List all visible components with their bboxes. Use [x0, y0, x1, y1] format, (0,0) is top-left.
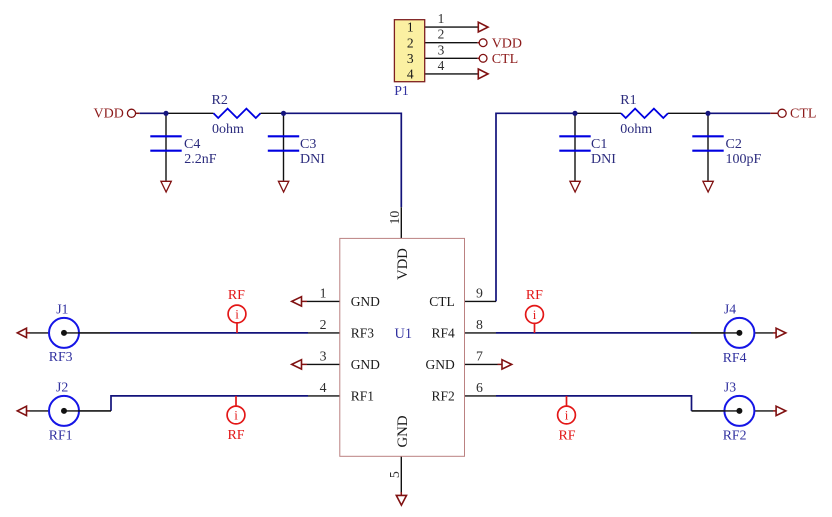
svg-text:CTL: CTL: [492, 52, 518, 67]
svg-text:2: 2: [438, 27, 445, 42]
svg-text:J1: J1: [56, 302, 68, 317]
svg-text:J3: J3: [724, 380, 736, 395]
svg-text:RF3: RF3: [351, 326, 375, 341]
svg-text:C4: C4: [184, 137, 200, 152]
svg-text:4: 4: [407, 67, 414, 82]
svg-text:C1: C1: [591, 137, 607, 152]
svg-text:VDD: VDD: [492, 36, 522, 51]
svg-text:i: i: [234, 408, 238, 423]
svg-text:4: 4: [438, 58, 445, 73]
svg-text:C2: C2: [726, 137, 742, 152]
svg-text:GND: GND: [351, 294, 380, 309]
svg-text:0ohm: 0ohm: [620, 122, 652, 137]
svg-text:VDD: VDD: [395, 248, 411, 280]
svg-text:GND: GND: [351, 357, 380, 372]
svg-text:100pF: 100pF: [726, 152, 762, 167]
svg-text:2.2nF: 2.2nF: [184, 152, 217, 167]
svg-text:1: 1: [407, 20, 414, 35]
svg-text:RF2: RF2: [723, 427, 747, 442]
svg-text:GND: GND: [395, 415, 411, 447]
svg-text:C3: C3: [300, 137, 316, 152]
svg-text:3: 3: [438, 42, 445, 57]
svg-text:RF: RF: [227, 428, 244, 443]
svg-text:R1: R1: [620, 93, 636, 108]
svg-text:RF3: RF3: [49, 349, 73, 364]
svg-text:U1: U1: [395, 326, 412, 342]
svg-text:1: 1: [320, 286, 327, 301]
svg-text:J4: J4: [724, 302, 736, 317]
svg-text:RF4: RF4: [723, 350, 747, 365]
svg-text:4: 4: [320, 380, 327, 395]
svg-text:P1: P1: [394, 83, 409, 98]
svg-text:DNI: DNI: [591, 152, 616, 167]
svg-text:10: 10: [387, 211, 402, 225]
svg-text:i: i: [565, 408, 569, 423]
svg-text:RF2: RF2: [432, 389, 455, 404]
svg-text:RF4: RF4: [432, 326, 456, 341]
svg-text:8: 8: [476, 317, 483, 332]
svg-text:VDD: VDD: [94, 107, 124, 122]
svg-text:R2: R2: [212, 93, 228, 108]
svg-text:GND: GND: [426, 357, 455, 372]
svg-text:9: 9: [476, 286, 483, 301]
svg-text:3: 3: [407, 51, 414, 66]
svg-text:RF: RF: [526, 288, 543, 303]
svg-text:RF1: RF1: [49, 427, 73, 442]
svg-text:RF: RF: [228, 288, 245, 303]
svg-text:i: i: [235, 307, 239, 322]
svg-text:2: 2: [407, 35, 414, 50]
svg-text:6: 6: [476, 380, 483, 395]
svg-text:3: 3: [320, 349, 327, 364]
svg-text:DNI: DNI: [300, 152, 325, 167]
svg-text:0ohm: 0ohm: [212, 122, 244, 137]
svg-text:i: i: [533, 307, 537, 322]
svg-text:7: 7: [476, 349, 483, 364]
svg-text:1: 1: [438, 11, 445, 26]
svg-text:RF: RF: [558, 428, 575, 443]
svg-text:CTL: CTL: [790, 107, 816, 122]
svg-text:5: 5: [387, 471, 402, 478]
svg-text:J2: J2: [56, 380, 68, 395]
svg-text:RF1: RF1: [351, 389, 374, 404]
svg-text:CTL: CTL: [429, 294, 455, 309]
svg-text:2: 2: [320, 317, 327, 332]
